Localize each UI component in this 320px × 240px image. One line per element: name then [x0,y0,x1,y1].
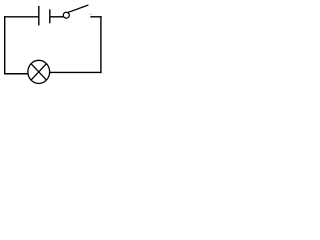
wire battery to switch [50,16,63,18]
wire top-left horizontal [4,16,39,18]
wire bottom-left horizontal [4,73,28,75]
wire right vertical [100,16,102,73]
lamp L1 cross stroke NE-SW [31,64,46,80]
battery B1 short plate (negative) [49,9,51,23]
wire bottom-right horizontal [50,71,102,73]
battery B1 long plate (positive) [38,6,40,26]
lamp L1 bulb circle [28,60,50,83]
switch S1 fixed contact dot [90,14,91,15]
lamp L1 cross stroke NW-SE [31,64,46,80]
switch S1 pivot circle [63,12,69,18]
wire left vertical [4,16,6,74]
wire top-right horizontal [90,16,101,18]
switch S1 lever (open) [67,5,88,13]
